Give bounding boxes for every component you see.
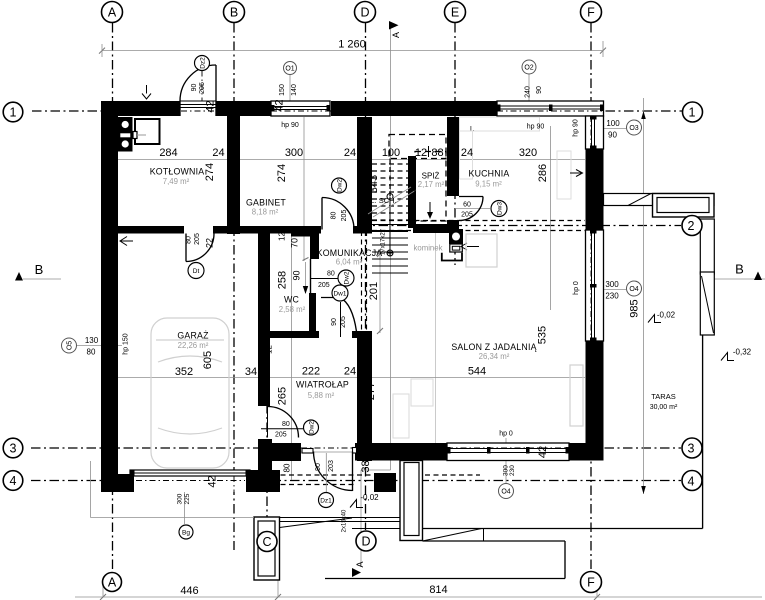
terrace planter outer (653, 194, 715, 218)
window O4 right wall (586, 230, 604, 341)
svg-text:535: 535 (537, 326, 549, 344)
extension line gabinet (303, 117, 305, 261)
svg-text:90: 90 (536, 86, 543, 94)
wall salon bottom right (569, 443, 603, 461)
svg-text:2: 2 (688, 219, 695, 233)
axis 1 horizontal dash-dot (32, 110, 682, 112)
svg-text:240: 240 (525, 86, 532, 98)
svg-text:E: E (451, 5, 459, 19)
canopy line right (423, 528, 703, 530)
leader window O1 (289, 74, 291, 101)
interior dimension chain lower (118, 377, 585, 379)
door Dz2 leaf and swing (215, 65, 217, 101)
svg-text:24: 24 (461, 147, 473, 159)
svg-text:hp 90: hp 90 (527, 124, 545, 131)
svg-text:446: 446 (180, 585, 198, 597)
svg-text:kominek: kominek (413, 244, 442, 253)
window bubble O1 (284, 62, 297, 75)
axis bubble A bottom (103, 573, 122, 592)
svg-text:O3: O3 (629, 125, 638, 132)
svg-text:1: 1 (689, 105, 696, 119)
door bubble Dw2 wc (338, 270, 354, 286)
interior dimension chain upper (118, 159, 585, 161)
door bubble Dz2 (195, 56, 210, 71)
door Dz2 opening in top wall (180, 101, 216, 116)
section mark A bottom (352, 568, 361, 577)
svg-text:90: 90 (292, 270, 302, 280)
leader window O4 right (600, 289, 626, 291)
svg-text:205: 205 (461, 212, 473, 219)
section line A-A top trace (390, 25, 392, 196)
axis bubble 4 right (682, 471, 702, 491)
svg-text:SALON Z JADALNIĄ: SALON Z JADALNIĄ (451, 342, 536, 352)
window bubble O4 right (627, 281, 642, 296)
axis bubble 3 right (682, 438, 702, 458)
svg-text:KOMUNIKACJA: KOMUNIKACJA (317, 248, 383, 258)
leader door Dw1 leaf dim (340, 302, 342, 337)
door bubble Dw3 (491, 201, 507, 217)
svg-text:O4: O4 (629, 286, 638, 293)
section line B-B right trace (714, 278, 765, 280)
svg-text:B: B (735, 262, 744, 277)
wall kotlownia-garage segment (118, 226, 184, 234)
svg-text:814: 814 (429, 584, 447, 596)
svg-text:605: 605 (202, 351, 214, 369)
svg-text:2x15x40: 2x15x40 (342, 509, 348, 532)
svg-text:D: D (361, 534, 370, 548)
leader door Dz2 (201, 71, 203, 102)
window O4 bottom wall (447, 443, 569, 461)
axis A vertical dash-dot (112, 23, 114, 572)
wall B2 (wc/komunikacja) (309, 293, 316, 331)
svg-text:230: 230 (509, 465, 516, 476)
stair landing edge (369, 230, 408, 232)
svg-text:hp 90: hp 90 (281, 122, 299, 129)
svg-text:42: 42 (207, 475, 219, 487)
svg-text:205: 205 (341, 210, 348, 222)
svg-text:D: D (360, 5, 369, 19)
axis 4 horizontal dash-dot (31, 480, 681, 482)
wall spiz bottom (413, 224, 447, 233)
svg-text:22: 22 (205, 238, 215, 248)
svg-text:KUCHNIA: KUCHNIA (469, 169, 510, 179)
wall gabinet bottom right stub (353, 226, 372, 234)
door Dz1 leaf and swing (352, 452, 354, 492)
stairs break line (368, 187, 411, 214)
door Dw1 leaf and swing (321, 297, 340, 299)
terrace band wall (604, 194, 715, 206)
wall gabinet bottom segment (213, 226, 321, 234)
svg-text:hp 0: hp 0 (573, 281, 580, 295)
axis bubble 1 left (3, 102, 23, 122)
svg-text:C: C (262, 535, 271, 549)
axis bubble F top (581, 2, 602, 23)
svg-text:O5: O5 (67, 341, 74, 350)
svg-text:88: 88 (431, 147, 443, 159)
svg-text:274: 274 (276, 164, 288, 182)
svg-text:222: 222 (302, 366, 320, 378)
beam dashed line lower (372, 230, 585, 232)
svg-text:Dz1: Dz1 (320, 498, 332, 505)
car outline in garage (151, 318, 229, 468)
leader window O5 (77, 345, 122, 347)
kuchnia counter top (460, 117, 540, 131)
svg-text:-0,02: -0,02 (657, 311, 676, 320)
svg-text:205: 205 (318, 282, 330, 289)
axis F vertical dash-dot (590, 23, 592, 571)
wall right exterior lower (586, 341, 604, 461)
wall garage bottom right corner (246, 470, 280, 492)
section mark B left (15, 272, 23, 281)
axis bubble D top (355, 2, 376, 23)
section line A-A jog (361, 469, 391, 471)
axis bubble C bottom (257, 532, 277, 552)
canopy dashed line lower (entrance) (272, 484, 357, 486)
vent mark top wall (146, 85, 148, 94)
svg-text:hp 150: hp 150 (123, 333, 130, 355)
svg-text:544: 544 (468, 366, 486, 378)
wall B2 upper column (310, 231, 319, 259)
svg-text:34: 34 (245, 366, 257, 378)
wall A (garage/wc) (258, 233, 270, 406)
axis C vertical dash-dot (short, at wall A) (266, 404, 268, 531)
axis bubble 4 left (3, 471, 23, 491)
svg-text:320: 320 (519, 147, 537, 159)
door Dw2 gabinet leaf and swing (321, 198, 323, 230)
level marker -0,32 (721, 353, 734, 361)
axis 3 horizontal dash-dot (31, 447, 681, 449)
level marker -0,02 entrance (350, 500, 363, 508)
svg-text:225: 225 (184, 493, 191, 504)
axis bubble B top (224, 2, 245, 23)
terrace planter inner (657, 198, 709, 213)
svg-text:5,88 m²: 5,88 m² (308, 391, 335, 400)
entrance steps outer (400, 461, 423, 541)
svg-text:Dw1: Dw1 (333, 291, 346, 298)
boiler (135, 119, 160, 144)
axis bubble F bottom (581, 572, 602, 593)
leader garage gate Bg (184, 477, 186, 524)
bottom dimension line (75, 596, 762, 598)
wall left exterior (101, 116, 118, 492)
svg-text:277: 277 (365, 382, 377, 400)
svg-text:KOTŁOWNIA: KOTŁOWNIA (150, 167, 205, 177)
svg-text:O4: O4 (501, 489, 510, 496)
svg-text:90: 90 (191, 84, 198, 92)
garage gate opening (134, 474, 246, 492)
svg-text:205: 205 (194, 233, 201, 245)
svg-text:80: 80 (282, 421, 290, 428)
svg-text:4: 4 (10, 474, 17, 488)
wall salon bottom left (355, 443, 447, 461)
svg-text:80: 80 (327, 271, 335, 278)
svg-text:GARAŻ: GARAŻ (177, 331, 209, 341)
svg-text:3: 3 (688, 441, 695, 455)
svg-text:90: 90 (315, 463, 322, 471)
svg-text:201: 201 (368, 282, 380, 300)
stairs dashed upper outline (389, 135, 446, 159)
axis bubble E top (445, 2, 466, 23)
section line B-B left trace (23, 278, 61, 280)
terrace column upper (700, 219, 714, 274)
salon sideboard (570, 365, 583, 426)
svg-text:80: 80 (283, 463, 292, 472)
stairs solid treads (372, 224, 408, 226)
svg-text:300: 300 (605, 280, 619, 289)
svg-text:A: A (391, 32, 401, 38)
axis B vertical dash-dot (233, 23, 235, 550)
svg-text:Dw2: Dw2 (337, 179, 344, 192)
garage gate panel Bg (130, 470, 250, 476)
svg-text:80: 80 (186, 236, 193, 244)
svg-text:1: 1 (10, 105, 17, 119)
section mark B right (754, 272, 762, 281)
beam over wc door (291, 231, 311, 237)
svg-text:22,26 m²: 22,26 m² (178, 341, 209, 350)
canopy band bottom right (423, 540, 566, 542)
wall stair/spiz stub (408, 156, 416, 228)
svg-text:343: 343 (368, 175, 380, 193)
svg-text:O2: O2 (524, 65, 533, 72)
svg-text:Dz2: Dz2 (200, 57, 207, 69)
svg-text:205: 205 (275, 432, 287, 439)
extension line kuchnia-salon (550, 126, 552, 310)
kominek vent arrow (467, 246, 479, 248)
svg-text:9,15 m²: 9,15 m² (475, 180, 502, 189)
canopy dashed line upper (entrance) (272, 474, 480, 476)
svg-text:230: 230 (605, 292, 619, 301)
wall B interior (kotlownia/gabinet) (227, 116, 240, 234)
dim line 201 opening (379, 254, 381, 333)
dim 985 vertical line with arrows (643, 98, 645, 494)
svg-text:7,49 m²: 7,49 m² (163, 177, 190, 186)
svg-text:3: 3 (10, 441, 17, 455)
leader window O3 (600, 128, 626, 130)
vent arrow kotlownia left wall (121, 240, 133, 242)
leader door Dw1 dim (311, 278, 339, 280)
door Dt leaf and swing (185, 234, 187, 262)
door bubble Dw2 gabinet (332, 178, 347, 193)
canopy column C outer (254, 517, 280, 580)
svg-text:8,18 m²: 8,18 m² (252, 208, 279, 217)
boiler room washer unit (118, 117, 133, 152)
svg-text:hp 0: hp 0 (499, 431, 513, 438)
svg-text:12: 12 (265, 345, 274, 354)
svg-text:4: 4 (688, 474, 695, 488)
svg-text:140: 140 (291, 84, 298, 96)
svg-text:80: 80 (87, 348, 96, 357)
svg-text:KL. SCH.: KL. SCH. (365, 196, 396, 205)
svg-text:300: 300 (285, 147, 303, 159)
beam dashed line upper (salon/kuchnia) (372, 220, 585, 222)
door bubble Dw2 garage (304, 420, 319, 435)
svg-text:42: 42 (274, 99, 286, 111)
gate bubble Bg (179, 525, 193, 539)
axis bubble A top (102, 2, 123, 23)
door Dw3 leaf and swing (459, 196, 483, 198)
wall top exterior segment 1 (101, 101, 180, 116)
svg-text:30,00 m²: 30,00 m² (650, 404, 678, 411)
porch outline left (90, 461, 92, 518)
spiz arrow (429, 202, 431, 213)
terrace edge line (702, 335, 704, 529)
svg-text:205: 205 (199, 82, 206, 94)
door bubble Dz1 (319, 493, 334, 508)
svg-text:26,34 m²: 26,34 m² (479, 352, 510, 361)
svg-text:42: 42 (537, 446, 549, 458)
stairs dashed treads (372, 163, 408, 165)
komunikacja/stairs dashed opening line 2 (366, 231, 368, 331)
axis bubble 2 right (682, 216, 702, 236)
svg-text:100: 100 (382, 147, 400, 159)
svg-text:Bg: Bg (182, 530, 190, 537)
svg-text:286: 286 (537, 164, 549, 182)
spiz dashed outline (415, 152, 446, 222)
svg-text:WC: WC (284, 295, 300, 305)
svg-text:F: F (587, 5, 595, 19)
svg-text:24: 24 (344, 366, 356, 378)
canopy lines left of steps (280, 517, 401, 519)
svg-text:A: A (108, 575, 117, 589)
kuchnia counter side (460, 131, 473, 179)
window bubble O5 (62, 338, 77, 353)
window O2 corner vertical (586, 116, 604, 149)
svg-text:12: 12 (415, 147, 427, 159)
wall wiatrolap bottom (258, 443, 301, 461)
salon sofa part 2 (393, 394, 409, 438)
terrace column lower with brace (700, 272, 714, 335)
svg-text:Dw3: Dw3 (497, 202, 504, 215)
svg-text:203: 203 (328, 460, 335, 472)
svg-text:150: 150 (279, 84, 286, 96)
svg-text:70: 70 (290, 238, 300, 248)
svg-text:A: A (108, 5, 117, 19)
svg-text:B: B (230, 5, 238, 19)
wall top exterior segment 3 (331, 101, 497, 116)
door bubble Dw1 (332, 285, 348, 301)
wall wiatrolap top (258, 331, 319, 338)
kuchnia counter right (557, 151, 571, 199)
window bubble O3 (627, 120, 642, 135)
dim arrow wc 90 (305, 262, 307, 293)
svg-text:24: 24 (212, 147, 224, 159)
kominek body (449, 229, 463, 244)
stairs walking line (389, 197, 391, 254)
window bubble O4 bottom (499, 484, 514, 499)
door bubble Dt (188, 263, 204, 279)
svg-text:Dw2: Dw2 (344, 271, 351, 284)
axis bubble D bottom (356, 531, 376, 551)
svg-text:130: 130 (85, 336, 99, 345)
svg-text:80: 80 (331, 212, 338, 220)
column at salon porch corner (374, 473, 396, 492)
svg-text:274: 274 (204, 163, 216, 181)
window O2 corner horizontal (497, 101, 604, 116)
svg-text:90: 90 (608, 131, 617, 140)
svg-text:O1: O1 (285, 66, 294, 73)
axis bubble 1 right (683, 102, 703, 122)
salon table (466, 234, 497, 267)
leader window O2 (528, 74, 530, 101)
leader door Dw2 garage (261, 428, 303, 430)
window bubble O2 (522, 60, 536, 74)
level marker -0,02 taras (648, 315, 661, 323)
svg-text:38: 38 (360, 460, 372, 472)
svg-text:-0,02: -0,02 (360, 493, 379, 502)
svg-text:2,58 m²: 2,58 m² (279, 305, 306, 314)
axis D vertical dash-dot (365, 23, 367, 530)
svg-text:TARAS: TARAS (651, 392, 675, 401)
svg-text:GABINET: GABINET (246, 198, 286, 208)
svg-text:F: F (587, 575, 595, 589)
section mark A top (389, 21, 399, 30)
wall D upper (gabinet/stairs) (357, 117, 372, 231)
svg-text:Dw2: Dw2 (309, 421, 316, 434)
leader door Dw3 (455, 208, 490, 210)
svg-text:284: 284 (159, 147, 177, 159)
wall A lower column (258, 439, 272, 492)
leader window O4 bottom (505, 438, 507, 483)
door Dz1 opening wiatrolap exterior (301, 443, 355, 461)
svg-text:258: 258 (277, 271, 289, 289)
svg-text:B: B (35, 262, 44, 277)
komunikacja/stairs dashed opening line 1 (361, 231, 363, 331)
svg-text:Dt: Dt (193, 268, 200, 275)
wall garage bottom left (101, 474, 134, 492)
vent arrow right wall (570, 172, 581, 174)
svg-text:42: 42 (205, 100, 217, 112)
entrance steps inner (404, 463, 419, 536)
window O1 opening (271, 101, 330, 116)
svg-text:12: 12 (278, 232, 287, 241)
wall wiatrolap top right stub (352, 331, 357, 338)
axis E vertical dash-dot (454, 23, 456, 265)
svg-text:2,17 m²: 2,17 m² (418, 180, 445, 189)
svg-text:-0,32: -0,32 (733, 348, 752, 357)
svg-text:352: 352 (175, 366, 193, 378)
extension line salon mid (435, 233, 437, 443)
section line A-A lower trace (390, 253, 392, 470)
wall E (stairs/kuchnia) (447, 117, 459, 196)
terrace band diagonal (628, 194, 651, 206)
wall D lower (wiatrolap/salon) (357, 331, 372, 461)
door Dw2 garage leaf and swing (267, 407, 269, 438)
svg-text:265: 265 (277, 387, 289, 405)
salon sofa part 1 (411, 379, 433, 406)
svg-text:24: 24 (344, 147, 356, 159)
svg-text:300: 300 (177, 493, 184, 504)
svg-text:WIATROŁAP: WIATROŁAP (296, 380, 349, 390)
svg-text:90: 90 (331, 318, 338, 326)
svg-text:60: 60 (463, 202, 471, 209)
svg-text:205: 205 (340, 316, 347, 328)
svg-text:100: 100 (606, 119, 620, 128)
svg-text:985: 985 (629, 299, 641, 317)
wall top exterior segment 2 (216, 101, 271, 116)
wall right exterior upper (586, 149, 604, 230)
axis 2 horizontal dash-dot (360, 225, 681, 227)
svg-text:6,04 m²: 6,04 m² (336, 258, 363, 267)
canopy column C inner (258, 521, 275, 576)
wall wc/komunikacja thin upper (310, 259, 312, 293)
svg-text:1 260: 1 260 (338, 39, 366, 51)
svg-text:A: A (355, 561, 365, 567)
extension line wc-wiatrolap chain (291, 234, 293, 480)
dimension line 1260 top (102, 50, 603, 52)
leader door Dz1 (325, 453, 327, 493)
svg-text:hp 90: hp 90 (573, 119, 580, 137)
section line A-A bottom trace (360, 470, 362, 567)
